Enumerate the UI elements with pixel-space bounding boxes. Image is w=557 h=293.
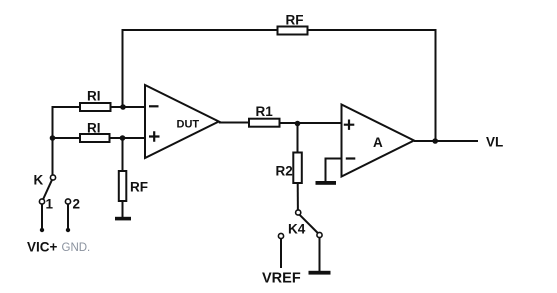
svg-text:DUT: DUT xyxy=(177,119,200,131)
op-amp A minus pin symbol xyxy=(346,157,356,159)
op-amp DUT minus pin symbol xyxy=(149,105,159,107)
wire: switch K contact 1 down to VIC+ terminal xyxy=(41,204,43,230)
wire: vertical RF from plus node xyxy=(122,138,124,172)
wire: RI upper to DUT minus xyxy=(111,106,147,108)
ground symbol (A inverting input) xyxy=(316,181,337,185)
junction dot: A output / feedback node xyxy=(432,138,438,144)
svg-text:GND.: GND. xyxy=(62,242,91,254)
switch K4 left contact circle (VREF) xyxy=(278,233,283,238)
svg-text:RF: RF xyxy=(130,180,148,195)
resistor R1 xyxy=(249,119,280,127)
wire: R2 bottom to switch K4 xyxy=(297,183,299,210)
op-amp U2 A triangle xyxy=(342,105,415,177)
wire: top feedback horizontal (right segment) xyxy=(307,29,437,31)
terminal dot: GND xyxy=(66,228,70,232)
switch K contact circle 1 xyxy=(39,199,44,204)
switch K4 blade xyxy=(300,215,318,233)
svg-text:K: K xyxy=(34,173,44,188)
wire: RI lower to DUT plus xyxy=(110,137,147,139)
wire: left input vertical bus xyxy=(52,106,54,175)
ground symbol (below K4) xyxy=(309,271,331,275)
ground symbol (below vertical RF) xyxy=(115,217,131,221)
svg-text:RI: RI xyxy=(87,89,101,104)
svg-text:1: 1 xyxy=(46,197,54,212)
wire: DUT inverting input net xyxy=(53,106,82,108)
resistor RI (lower) xyxy=(80,134,110,142)
svg-text:R2: R2 xyxy=(276,164,293,179)
svg-text:R1: R1 xyxy=(256,104,274,119)
svg-text:RF: RF xyxy=(286,13,304,28)
wire: switch K4 left contact down to VREF xyxy=(280,239,282,268)
wire: RF bottom to ground xyxy=(122,201,124,217)
switch K contact circle 2 xyxy=(65,199,70,204)
wire: R1 to op-amp A plus input xyxy=(280,122,343,124)
wire: top feedback horizontal (left segment) xyxy=(122,29,279,31)
switch K pole contact circle xyxy=(50,175,55,180)
wire: switch K4 right contact down to ground xyxy=(319,238,321,271)
resistor R2 xyxy=(293,153,302,184)
svg-text:VIC+: VIC+ xyxy=(27,240,58,255)
svg-text:K4: K4 xyxy=(288,222,306,237)
junction dot: R1 / R2 / A plus node xyxy=(295,121,301,127)
wire: A inverting input to ground (horizontal) xyxy=(326,159,342,182)
resistor RI (upper) xyxy=(80,103,111,111)
terminal dot: VIC+ xyxy=(40,228,44,232)
op-amp U1 DUT triangle xyxy=(145,85,219,158)
wire: feedback vertical from output node up xyxy=(435,29,437,141)
switch K4 pole contact circle xyxy=(296,210,301,215)
wire: A output to VL xyxy=(414,140,478,142)
resistor RF (to ground, vertical) xyxy=(119,171,127,201)
wire: R2 top from node xyxy=(297,123,299,153)
op-amp A plus pin symbol xyxy=(344,120,355,130)
svg-text:VL: VL xyxy=(486,135,503,150)
wire: switch K contact 2 down to GND terminal xyxy=(67,204,69,230)
junction dot: feedback / DUT minus node xyxy=(120,104,126,110)
junction dot: left bus / RI lower node xyxy=(50,135,56,141)
switch K blade xyxy=(43,180,52,200)
svg-text:VREF: VREF xyxy=(262,271,301,287)
wire: DUT non-inverting input net xyxy=(53,137,82,139)
wire: DUT output to R1 xyxy=(219,122,250,124)
op-amp DUT plus pin symbol xyxy=(149,131,160,141)
junction dot: RI lower / RF node xyxy=(120,135,126,141)
svg-text:2: 2 xyxy=(73,197,81,212)
svg-text:A: A xyxy=(373,135,383,150)
wire: feedback vertical drop to DUT inverting input xyxy=(122,29,124,107)
svg-text:RI: RI xyxy=(87,121,101,136)
resistor RF (top feedback) xyxy=(278,27,308,35)
switch K4 right contact circle xyxy=(317,232,322,237)
